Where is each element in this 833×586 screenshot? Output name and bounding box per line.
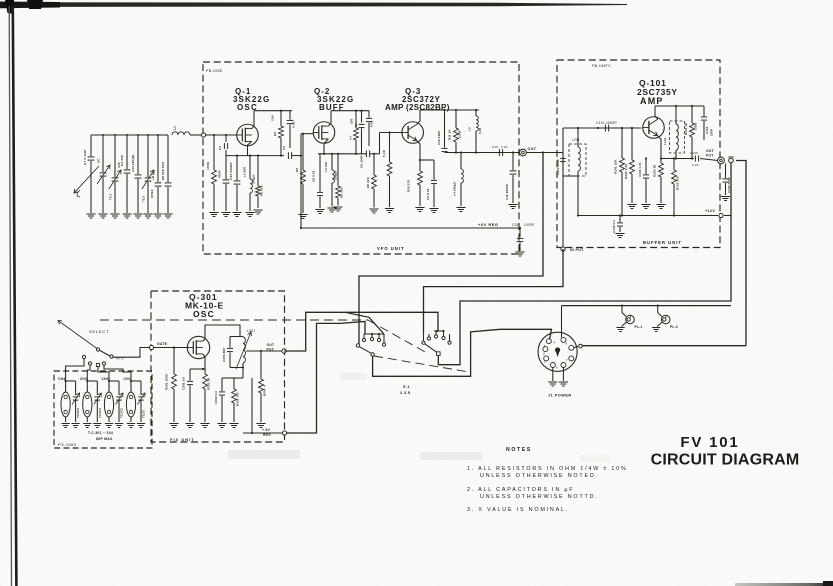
wire contacts to columns	[66, 359, 84, 377]
inductor L4 250µH	[460, 153, 462, 170]
node IN PUT connector	[561, 247, 565, 251]
capacitor C2 450P	[223, 179, 230, 181]
ground	[83, 423, 91, 425]
resistor R101 22K	[621, 128, 623, 158]
wire J1 top pins to lamp rail	[561, 306, 563, 338]
ground	[143, 213, 152, 215]
node VFO input connector	[201, 133, 205, 137]
resistor R8 22K	[373, 154, 375, 175]
node contact CH4	[82, 355, 85, 358]
wire coupling node to rail	[300, 134, 302, 228]
node junction CH2	[108, 380, 110, 382]
wire Q3 collector to rail	[417, 110, 420, 124]
capacitor C5 0.01	[289, 111, 291, 120]
capacitor D6	[167, 135, 169, 182]
ground	[163, 213, 172, 215]
wire +12V stub	[724, 215, 731, 217]
wire CH3 branch	[86, 377, 88, 392]
ground	[616, 327, 624, 329]
ground	[209, 212, 218, 214]
ground	[98, 213, 107, 215]
ground	[385, 208, 394, 210]
transistor Q2 3SK22G	[313, 122, 335, 144]
trimmer TC30	[138, 396, 144, 398]
ground	[245, 212, 254, 214]
wire Q301 drain loop	[203, 325, 240, 341]
resistor R301 100K	[173, 348, 175, 375]
ground	[127, 423, 135, 425]
ground	[515, 251, 524, 253]
ground	[71, 423, 79, 425]
wire tank bottom	[242, 363, 244, 378]
ground	[456, 207, 465, 209]
plug P1	[729, 158, 734, 163]
wire lamp PL-1 ground lead	[622, 322, 627, 326]
wire emitter ground rail	[578, 215, 718, 217]
node FIX OUT PUT connector	[282, 349, 286, 353]
wire source node	[190, 368, 205, 370]
node OUT connector	[520, 149, 527, 156]
trimmer TC1	[114, 135, 116, 177]
node wafer1 rotor	[356, 344, 359, 347]
ground	[369, 208, 378, 210]
wire buffer input to S1 wafer2	[424, 249, 564, 332]
ground	[256, 423, 265, 425]
capacitor C106 560P	[725, 164, 727, 179]
resistor R4	[280, 111, 282, 126]
capacitor C103 0.01	[645, 159, 647, 175]
inductor L301 variable	[240, 336, 243, 338]
ground	[115, 423, 123, 425]
inductor L5	[475, 110, 477, 116]
capacitor C8 100P	[365, 150, 367, 157]
ground	[721, 196, 730, 198]
wire Q1 top rail	[254, 110, 292, 112]
wire J1 output to +12V rail	[574, 346, 578, 348]
ground	[110, 213, 119, 215]
wire lamp PL-2 ground lead	[657, 322, 662, 326]
wire +6V REG to FIX unit	[287, 322, 365, 434]
wire Q3 base riser	[379, 133, 381, 154]
transistor Q101 2SC735Y	[643, 117, 665, 139]
fix unit enclosure	[151, 291, 285, 442]
resistor R105 220	[673, 159, 675, 171]
ground	[232, 212, 241, 214]
wire Q301 source	[203, 354, 205, 369]
node wafer2 rotor	[425, 344, 437, 352]
wire buffer output line	[661, 158, 694, 160]
ground	[185, 423, 194, 425]
ground	[429, 208, 438, 210]
node VFO contact	[110, 355, 113, 358]
ground	[61, 423, 69, 425]
capacitor C101 1000P	[604, 125, 606, 132]
wire +6V REG rail	[301, 227, 520, 229]
wire VFO output line	[445, 152, 544, 154]
wire CH4 branch	[65, 377, 67, 392]
capacitor C104 100P	[703, 106, 705, 116]
capacitor C7	[90, 135, 92, 156]
wire gate	[154, 347, 188, 349]
wire S1 wafer2 rotor to output plug	[438, 163, 731, 365]
tuning capacitor arrow	[74, 166, 99, 193]
ground	[333, 206, 342, 208]
capacitor C303 80P	[230, 336, 240, 338]
lamp PL-1	[621, 306, 623, 313]
resistor R304	[260, 351, 262, 379]
pin 2 of J1	[550, 363, 555, 368]
wire Q3 emitter	[417, 141, 420, 171]
VFO unit enclosure PB-105E	[203, 62, 519, 254]
capacitor C302	[222, 377, 234, 379]
ground	[315, 209, 324, 211]
wire lamp supply	[562, 305, 732, 307]
ground	[415, 207, 424, 209]
capacitor C15b	[157, 135, 159, 182]
wire VFO OUT to buffer input	[527, 152, 564, 154]
wire FIX out to S1	[284, 350, 286, 352]
wire Q101 emitter	[658, 136, 662, 159]
inductor L3	[331, 154, 333, 170]
trimmer TC302	[116, 396, 122, 398]
keyway of J1	[555, 347, 560, 352]
inductor coil CH1	[126, 392, 135, 417]
pin 3 of J1	[569, 345, 574, 350]
ground	[137, 423, 145, 425]
wire L201 bottom rail	[563, 175, 578, 177]
capacitor C102	[619, 216, 621, 223]
pin 6 of J1	[561, 363, 566, 368]
capacitor C9 0.01	[420, 159, 434, 161]
wire CH2 branch	[108, 377, 110, 392]
ground	[169, 423, 178, 425]
capacitor C201 400P	[562, 153, 564, 177]
resistor R102 3.3K	[631, 128, 633, 160]
node OUT PUT connector	[718, 157, 725, 164]
lamp PL-2	[657, 306, 659, 313]
wire Q2 top rail	[331, 110, 369, 112]
resistor R5	[302, 134, 304, 170]
capacitor C3	[126, 135, 128, 169]
pin 1 of J1	[544, 356, 549, 361]
capacitor C6 0.01	[319, 154, 321, 192]
wire Q2 drain to rail	[328, 111, 331, 126]
node wafer2 contacts	[423, 332, 425, 341]
resistor R1 330	[257, 156, 259, 186]
wire Q1 drain to rail	[252, 111, 254, 129]
ground	[229, 423, 238, 425]
capacitor C11 2000P	[512, 153, 514, 171]
ground	[200, 423, 209, 425]
resistor R9 5.2K	[389, 133, 391, 163]
wire Q101 collector rail	[655, 106, 658, 119]
resistor R11 1K 1/2W	[455, 110, 457, 128]
inductor L101 with shield	[670, 121, 685, 153]
switch wiper	[99, 350, 110, 356]
switch SELECT linkage	[58, 321, 99, 351]
inductor coil CH2	[104, 392, 113, 417]
trimmer TC304	[73, 396, 79, 398]
ground	[298, 214, 307, 216]
resistor R2 100K	[213, 135, 215, 170]
ground	[656, 204, 665, 206]
capacitor C301	[189, 369, 191, 381]
variable capacitor VC	[102, 135, 104, 172]
ground	[86, 213, 95, 215]
ground	[217, 423, 226, 425]
resistor R10 270	[418, 171, 423, 185]
resistor R103 50	[660, 159, 662, 164]
wire J1 ground pins	[552, 368, 554, 382]
wire Q1 source node	[226, 155, 284, 157]
node junction CH4	[65, 380, 67, 382]
capacitor C1	[225, 135, 227, 142]
wire Q3 top rail	[420, 109, 479, 111]
pin 5 of J1	[543, 347, 548, 352]
wire right riser to OUT PUT	[736, 161, 746, 346]
wire L1 to VFO input	[190, 134, 202, 136]
wire oscillator output	[246, 350, 284, 352]
resistor R302 56	[204, 369, 206, 374]
wire VFO out to S1 wafer1 rotor	[359, 153, 543, 344]
capacitor C14	[137, 135, 139, 174]
capacitor C105 0.01	[694, 156, 696, 162]
resistor R6 330	[337, 154, 339, 186]
capacitor C4 coupling	[287, 152, 289, 159]
wire S1 wafer1 bar	[364, 333, 384, 335]
ground	[153, 213, 162, 215]
wire Q1 gate	[206, 134, 237, 136]
trimmer TC3	[147, 135, 149, 177]
pin 4 of J1	[546, 339, 551, 344]
wire branch to wafer1 right	[345, 312, 384, 334]
wire VFO contact to GATE	[113, 348, 150, 358]
wire Q2 gate	[301, 133, 313, 135]
wire +6V REG feed	[243, 432, 284, 434]
wire Q2 source node	[318, 153, 366, 155]
node junction CH3	[86, 380, 88, 382]
transistor Q301 MK-10-E	[187, 336, 209, 358]
pin 7 of J1	[569, 356, 574, 361]
resistor R7 4.7	[355, 111, 357, 128]
ground	[559, 381, 568, 383]
ground	[253, 209, 262, 211]
buffer unit enclosure PB-106TC	[557, 60, 720, 248]
ground	[93, 423, 101, 425]
ground	[122, 213, 131, 215]
node wafer1 contacts	[363, 334, 365, 338]
channel selector enclosure PX-1060	[54, 371, 152, 448]
ground	[105, 423, 113, 425]
wire buffer input riser	[562, 128, 564, 153]
capacitor C16 0.01	[498, 149, 500, 156]
wire S1 rotor to J1	[373, 329, 552, 376]
pin 8 of J1	[561, 337, 566, 342]
node +12V connector	[719, 213, 723, 217]
wire CH1 branch	[130, 377, 132, 392]
wire S1 wafer2 bar	[434, 330, 444, 332]
node +6V REG connector	[282, 431, 286, 435]
ground	[221, 212, 230, 214]
node contact a	[88, 362, 91, 365]
ground	[615, 233, 624, 235]
node junction CH1	[130, 380, 132, 382]
ground	[641, 204, 650, 206]
node contact c	[102, 362, 105, 365]
ground	[508, 204, 517, 206]
capacitor C10 100P	[444, 110, 446, 148]
capacitor 0.01 500WV	[236, 156, 238, 180]
resistor R303 100	[233, 378, 235, 389]
node GATE connector	[149, 345, 153, 349]
connector J1 POWER socket	[538, 332, 577, 371]
trimmer TC303	[95, 396, 101, 398]
wire input bus	[91, 134, 168, 136]
capacitor C7b	[361, 111, 363, 123]
ground	[627, 204, 636, 206]
resistor R104 1K	[691, 106, 693, 123]
ground	[548, 381, 557, 383]
switch S1 mechanical linkage dashed	[100, 319, 368, 321]
inductor coil CH3	[83, 392, 92, 417]
transistor Q3 2SC372Y	[402, 122, 424, 144]
inductor L1	[172, 132, 190, 135]
node contact b	[96, 363, 99, 366]
transistor Q1 3SK22G	[237, 124, 259, 146]
ground	[327, 207, 336, 209]
inductor coil CH4	[61, 392, 70, 417]
inductor L2	[249, 156, 251, 179]
capacitor 0.01 top	[368, 111, 370, 118]
inductor L201 with shield	[569, 144, 586, 176]
ground	[652, 327, 660, 329]
ground	[133, 213, 142, 215]
